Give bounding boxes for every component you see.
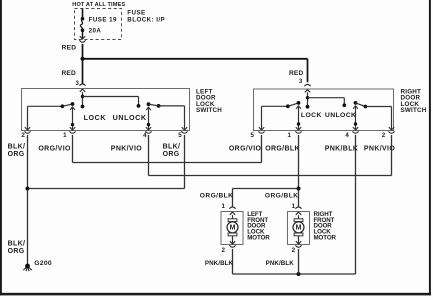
svg-text:1: 1 — [292, 203, 296, 210]
svg-text:1: 1 — [221, 203, 225, 210]
svg-text:LOCK: LOCK — [84, 113, 107, 122]
svg-text:ORG: ORG — [8, 248, 25, 255]
svg-text:20A: 20A — [89, 27, 102, 34]
svg-text:5: 5 — [178, 132, 182, 139]
svg-text:PNK/BLK: PNK/BLK — [266, 260, 295, 267]
svg-text:BLK/: BLK/ — [163, 143, 181, 150]
svg-text:2: 2 — [292, 247, 296, 254]
svg-text:2: 2 — [382, 132, 386, 139]
svg-text:RED: RED — [62, 44, 77, 51]
svg-text:ORG: ORG — [8, 151, 25, 158]
svg-text:2: 2 — [221, 247, 225, 254]
svg-text:4: 4 — [345, 132, 349, 139]
svg-text:SWITCH: SWITCH — [196, 107, 222, 114]
svg-text:4: 4 — [143, 132, 147, 139]
svg-text:RED: RED — [289, 70, 304, 77]
svg-text:ORG/BLK: ORG/BLK — [265, 192, 299, 199]
svg-text:ORG: ORG — [163, 151, 180, 158]
svg-text:PNK/VIO: PNK/VIO — [364, 145, 395, 152]
svg-text:FUSE: FUSE — [127, 10, 145, 17]
svg-text:UNLOCK: UNLOCK — [113, 113, 147, 122]
svg-text:1: 1 — [63, 132, 67, 139]
svg-text:ORG/BLK: ORG/BLK — [265, 145, 300, 152]
svg-text:MOTOR: MOTOR — [247, 234, 270, 241]
svg-text:SWITCH: SWITCH — [401, 107, 427, 114]
svg-text:UNLOCK: UNLOCK — [325, 112, 356, 119]
svg-text:5: 5 — [250, 132, 254, 139]
svg-text:FUSE 19: FUSE 19 — [89, 16, 117, 23]
svg-text:MOTOR: MOTOR — [314, 234, 337, 241]
svg-text:BLK/: BLK/ — [8, 241, 26, 248]
svg-text:PNK/VIO: PNK/VIO — [111, 146, 142, 153]
svg-text:M: M — [230, 225, 236, 232]
svg-text:ORG/BLK: ORG/BLK — [200, 192, 234, 199]
svg-text:G200: G200 — [34, 260, 52, 267]
svg-text:LOCK: LOCK — [301, 112, 322, 119]
svg-text:ORG/VIO: ORG/VIO — [229, 145, 262, 152]
svg-text:RED: RED — [61, 70, 76, 77]
svg-text:M: M — [296, 225, 302, 232]
svg-text:ORG/VIO: ORG/VIO — [38, 146, 71, 153]
svg-text:PNK/BLK: PNK/BLK — [205, 260, 234, 267]
svg-text:BLOCK: I/P: BLOCK: I/P — [127, 17, 165, 24]
svg-text:PNK/BLK: PNK/BLK — [325, 145, 359, 152]
svg-text:1: 1 — [288, 132, 292, 139]
svg-text:2: 2 — [21, 132, 25, 139]
svg-text:BLK/: BLK/ — [8, 143, 26, 150]
svg-text:HOT AT ALL TIMES: HOT AT ALL TIMES — [72, 2, 125, 8]
